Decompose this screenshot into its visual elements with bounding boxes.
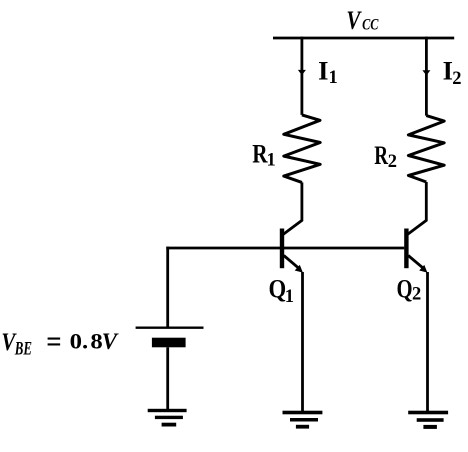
ground Q1 [283, 411, 323, 429]
wire battery top [166, 247, 169, 327]
svg-text:1: 1 [329, 68, 338, 88]
svg-text:2: 2 [388, 152, 397, 172]
label VBE value [1, 326, 118, 359]
ground Q2 [408, 411, 448, 429]
svg-text:BE: BE [14, 338, 32, 359]
svg-text:1: 1 [267, 151, 276, 171]
wire VCC rail [273, 37, 454, 40]
wire battery bottom [166, 347, 169, 410]
wire Q2 collector [407, 182, 426, 235]
node VCC label [346, 7, 379, 36]
wire I1 branch [300, 37, 303, 115]
svg-text:2: 2 [412, 285, 421, 305]
wire I2 branch [425, 37, 428, 116]
svg-text:CC: CC [362, 17, 379, 34]
resistor R2 [408, 116, 444, 182]
wire Q1 emitter [301, 272, 304, 411]
label R2 [374, 140, 397, 172]
svg-text:R: R [374, 140, 388, 170]
svg-text:=: = [46, 326, 61, 359]
label Q2 [397, 275, 422, 304]
wire base bus [166, 247, 404, 250]
transistor Q2 [404, 229, 427, 273]
svg-text:V: V [346, 7, 362, 36]
wire Q1 collector [283, 182, 302, 234]
svg-text:Q: Q [269, 275, 287, 304]
transistor Q1 [280, 229, 303, 273]
arrow I2 [422, 70, 430, 75]
svg-text:I: I [318, 56, 328, 86]
label R1 [252, 141, 276, 171]
arrow I1 [298, 70, 306, 75]
label I1 [318, 56, 338, 89]
svg-text:2: 2 [452, 69, 461, 89]
resistor R1 [284, 115, 320, 182]
svg-text:0.: 0. [70, 330, 89, 355]
svg-text:1: 1 [285, 287, 294, 307]
label I2 [443, 56, 462, 89]
ground battery [148, 409, 187, 427]
svg-text:V: V [102, 329, 119, 354]
label Q1 [269, 275, 295, 307]
svg-text:Q: Q [397, 275, 413, 304]
wire Q2 emitter [426, 272, 429, 411]
battery VBE [136, 328, 204, 348]
